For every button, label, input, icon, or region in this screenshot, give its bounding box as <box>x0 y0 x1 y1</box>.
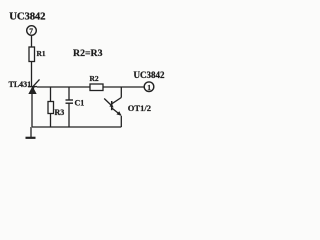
svg-text:C1: C1 <box>75 98 85 107</box>
resistor R3 <box>48 102 54 114</box>
pin 1 circle <box>144 82 154 92</box>
phototransistor OT1/2 <box>104 98 151 116</box>
svg-text:1: 1 <box>147 83 151 92</box>
svg-text:R1: R1 <box>37 49 46 58</box>
wire emitter to bottom rail <box>120 116 122 127</box>
wire node to R3 <box>50 87 52 102</box>
svg-text:R2: R2 <box>90 74 99 83</box>
wire R1 to TL431 cathode <box>31 62 33 87</box>
wire TL431 anode to bottom rail <box>31 94 33 127</box>
svg-text:R2=R3: R2=R3 <box>73 48 103 59</box>
wire R3 to bottom rail <box>50 114 52 128</box>
wire R2 to pin 1 <box>103 86 144 88</box>
resistor R1 <box>29 47 35 62</box>
wire junction to phototransistor collector <box>120 87 122 98</box>
resistor R2 <box>90 84 103 91</box>
svg-text:UC3842: UC3842 <box>134 70 165 80</box>
wire node to C1 <box>68 87 70 100</box>
svg-text:TL431: TL431 <box>9 80 32 89</box>
wire C1 to bottom rail <box>68 103 70 127</box>
bottom rail wire <box>32 126 121 128</box>
node wire: cathode node to R2 (feedback node) <box>37 86 90 88</box>
wire pin7 to R1 <box>31 35 33 47</box>
svg-text:7: 7 <box>29 27 33 36</box>
TL431 shunt regulator <box>9 79 40 93</box>
pin 7 circle <box>27 26 37 36</box>
svg-text:OT1/2: OT1/2 <box>128 103 151 113</box>
svg-text:UC3842: UC3842 <box>9 11 45 23</box>
capacitor C1 <box>66 98 85 107</box>
svg-text:R3: R3 <box>55 108 65 117</box>
ground <box>26 127 36 138</box>
